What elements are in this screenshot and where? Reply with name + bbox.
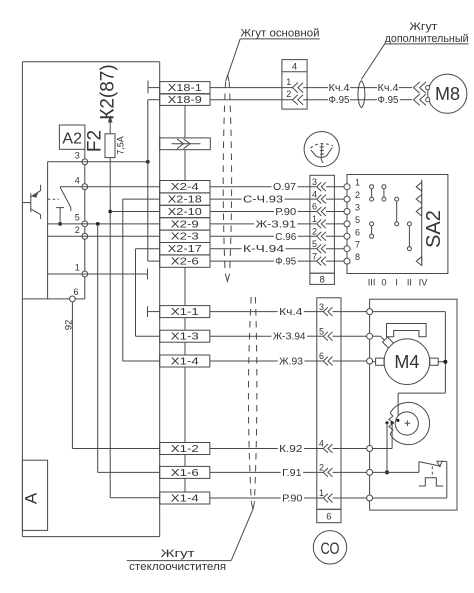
pin 6 [70,287,79,302]
svg-text:8: 8 [320,274,325,285]
svg-text:Кч.4: Кч.4 [279,307,303,318]
connector X1/M4 6-pin box [317,298,367,510]
label Ф.95 (b) [378,95,399,106]
wire park switch feed [373,471,419,473]
wire Ж-З.94 row X1 [210,335,323,337]
wire X2-17 to X1-3 [136,249,160,337]
svg-text:F2: F2 [85,130,106,152]
svg-text:Г.91: Г.91 [282,468,302,479]
wire X2-18 to X1-4 [123,199,160,361]
svg-text:1: 1 [286,77,291,87]
M4 unit pins [367,309,373,501]
pump contact b [391,421,394,424]
harness main dashed lines [223,75,231,281]
block A2 box [59,125,85,149]
wire 92 from pin 6 [72,302,159,449]
svg-text:О.97: О.97 [273,182,296,193]
label О.97 [273,182,296,193]
switch contact blade [60,187,71,211]
svg-text:СО: СО [321,539,340,558]
svg-text:К2(87): К2(87) [98,64,119,119]
svg-text:7: 7 [355,240,360,250]
svg-text:1: 1 [355,178,360,188]
transistor VT1 [22,185,40,219]
wire M8 row2 b [350,99,377,101]
pin 2 [75,225,88,239]
wire X18-9 branch down to X2-6 [148,100,160,261]
third brush rotated [383,337,394,348]
M4 left brush [373,358,385,365]
label С-Ч.93 [243,195,284,206]
svg-text:6: 6 [73,287,78,297]
svg-text:5: 5 [355,215,360,225]
svg-text:А2: А2 [62,131,82,148]
connector 4-1-2 box [282,60,307,110]
label Р.90 [275,207,296,218]
wire К-Ч.94 row [210,248,316,250]
label Ф.95 (a) [329,95,350,106]
svg-text:III: III [368,278,376,288]
connector pin Х1-4 (upper group) [160,355,210,368]
node pin3/X18-9 junction [146,160,150,164]
svg-text:Х1-3: Х1-3 [171,332,199,343]
pin 5 [75,213,88,227]
svg-text:1: 1 [312,214,317,224]
svg-text:6: 6 [319,351,324,361]
label harness wiper [127,509,253,573]
wire pin 1 row [48,273,148,275]
wire M8 row2 c [400,94,426,105]
connector pin Х2-6 [160,255,210,268]
svg-text:6: 6 [326,512,331,523]
node M4 right brush [443,360,447,364]
washer pump M [389,402,430,444]
block A label box [22,460,47,530]
label harness additional [361,21,468,80]
svg-text:Х1-2: Х1-2 [171,444,199,455]
wire M4 supply [373,312,446,419]
node fuse to X2-10 [108,210,112,214]
unit M4 box [370,299,457,510]
wire X18-9 stub [184,105,186,137]
SA2 wiper triangles [416,182,422,265]
svg-text:С-Ч.93: С-Ч.93 [243,195,284,206]
node switch to pin5 wire [58,222,62,226]
svg-text:5: 5 [312,239,317,249]
label 92 [64,320,75,331]
label Ж.93 X1 [279,357,303,368]
node pump a [385,470,389,474]
wire fuse to X1-4 lower [110,497,160,499]
svg-text:Х2-10: Х2-10 [168,207,202,218]
svg-text:Х18-9: Х18-9 [168,95,202,106]
wire pin 4 to X2-4 [60,186,160,188]
SA2 contact columns [370,185,412,251]
wire Р.90 row [210,211,316,213]
label SA2 [423,210,445,248]
label Р.90 X1 [282,494,303,505]
label F2 [85,130,106,152]
label harness main [228,28,320,76]
wire Р.90 row X1 [210,497,323,499]
wire pin 2 row [48,235,160,237]
SA2 position labels [368,278,428,288]
svg-text:Х2-17: Х2-17 [168,244,202,255]
svg-text:2: 2 [319,463,324,473]
svg-text:Х1-4: Х1-4 [171,494,199,505]
wire Ж-З.91 row [210,223,316,225]
wire Ж.93 row X1 [210,360,323,362]
crank linkage symbol [387,324,427,337]
wire X18-9 to connector [210,99,292,101]
svg-text:7: 7 [312,251,317,261]
svg-text:1: 1 [319,488,324,498]
wire third brush [373,336,385,340]
svg-text:Х2-6: Х2-6 [171,257,199,268]
unit A outline (wiper relay unit) [22,62,159,537]
label С.96 [275,232,296,243]
wire fuse to X2-10 [110,211,160,213]
svg-text:4: 4 [75,175,80,185]
connector pin Х1-2 (lower group) [160,443,210,456]
connector pin Х1-6 (lower group) [160,466,210,479]
svg-text:6: 6 [312,202,317,212]
joint box with arrow [160,138,211,150]
svg-text:IV: IV [419,278,429,288]
pump contact c [396,419,399,422]
wire X1 link [184,318,186,331]
terminal bar X18-1 [148,81,160,94]
svg-text:3: 3 [319,302,324,312]
label Ж-З.94 X1 [273,332,306,343]
pin 4 [75,175,88,189]
wire X1 link [184,342,186,355]
wire pump a [386,423,388,473]
wire M8 row1 b [350,87,377,89]
wire pump b [373,423,393,449]
wire M8 row1 a [303,87,328,89]
svg-text:Х2-3: Х2-3 [171,232,199,243]
svg-text:стеклоочистителя: стеклоочистителя [129,561,226,573]
M8 pin b [426,98,430,102]
park switch cam [419,478,443,486]
connector pin X18-9 [160,94,210,106]
label Кч.4 (a) [329,83,350,94]
svg-text:Жгут: Жгут [409,21,437,33]
svg-text:Ж.93: Ж.93 [279,357,303,368]
symbol CO [313,531,346,564]
svg-text:I: I [395,278,398,288]
svg-text:1: 1 [75,263,80,273]
label Ж-З.91 [256,219,297,230]
wire Ф.95 row [210,260,316,262]
harness boundary ellipse [358,81,365,108]
svg-text:3: 3 [355,203,360,213]
wire internal left bus [47,162,49,299]
svg-text:Кч.4: Кч.4 [378,83,399,94]
SA2 wiper line [421,180,423,264]
svg-text:Ф.95: Ф.95 [329,95,350,106]
label Кч.4 X1 [279,307,303,318]
label 7,5A [116,136,126,155]
label Ф.95 [275,257,296,268]
svg-text:2: 2 [75,225,80,235]
motor M8 [428,74,467,113]
fuse F2 [105,134,115,158]
svg-text:5: 5 [75,213,80,223]
svg-text:Х2-4: Х2-4 [171,182,199,193]
wire X2 to X1-1 link [184,267,186,305]
svg-text:Жгут: Жгут [161,548,195,560]
connector pin Х2-17 [160,243,210,256]
svg-text:0: 0 [381,278,386,288]
svg-text:3: 3 [312,177,317,187]
wire park switch to row1 [373,497,447,499]
svg-text:Жгут основной: Жгут основной [241,28,320,40]
wire Кч.4 row X1 [210,311,323,313]
switch SA2 box [347,175,448,274]
pin 1 [75,263,88,277]
svg-text:Х1-4: Х1-4 [171,357,199,368]
svg-text:2: 2 [312,227,317,237]
wire pin5 branch to X1-6 [98,224,160,473]
terminal bar X1-1 [148,306,160,317]
SA2 pins [344,178,360,264]
connector pin Х1-4 (lower group) [160,492,210,505]
label Г.91 X1 [282,468,302,479]
connector label 6 [317,509,341,522]
svg-text:Кч.4: Кч.4 [329,83,350,94]
svg-text:К-Ч.94: К-Ч.94 [243,244,285,255]
svg-text:92: 92 [64,320,75,331]
M4 right brush [430,358,446,365]
label K2(87) [98,64,119,119]
svg-text:3: 3 [75,151,80,161]
connector pin Х1-3 (upper group) [160,330,210,343]
svg-text:Ж-З.94: Ж-З.94 [273,332,306,343]
label A [22,492,41,504]
svg-text:Х2-9: Х2-9 [171,219,199,230]
label К-Ч.94 [243,244,285,255]
wire pin 3 row [48,161,148,163]
label Кч.4 (b) [378,83,399,94]
motor M4 circle [384,339,430,385]
wire pin 5 row [48,223,160,225]
wire joint to X2 [184,150,186,181]
svg-text:Ф.95: Ф.95 [275,257,296,268]
label К.92 X1 [279,444,303,455]
svg-text:дополнительный: дополнительный [385,33,469,45]
svg-text:М8: М8 [435,84,460,104]
svg-text:Р.90: Р.90 [275,207,296,218]
arrow to relay contact K2(87) [108,115,113,134]
connector pin Х2-9 [160,218,210,231]
svg-text:Р.90: Р.90 [282,494,303,505]
svg-text:М4: М4 [394,352,419,372]
harness wiper dashed lines [248,297,256,509]
connector X2/SA2 8-pin box [310,175,344,273]
mechanical link dashed [48,198,59,200]
svg-text:6: 6 [355,227,360,237]
terminal bar pin1 wire [147,269,149,280]
svg-text:Х1-1: Х1-1 [171,307,199,318]
svg-text:А: А [22,492,41,504]
wire К.92 row X1 [210,448,323,450]
svg-text:7,5А: 7,5А [116,136,126,155]
svg-text:Ж-З.91: Ж-З.91 [256,219,297,230]
svg-text:4: 4 [319,439,324,449]
wire X18-1 to connector [210,87,292,89]
svg-text:2: 2 [286,89,291,99]
node pin5 branch [96,222,100,226]
wire X1 link [184,455,186,467]
connector pin Х2-3 [160,230,210,243]
wire fuse output down [109,158,111,498]
connector pin X18-1 [160,82,210,94]
svg-text:8: 8 [355,252,360,262]
wiper pictogram [304,132,339,167]
wire С-Ч.93 row [210,198,316,200]
svg-text:SА2: SА2 [423,210,445,248]
wire X1 link [184,478,186,492]
wire О.97 row [210,186,316,188]
svg-text:К.92: К.92 [279,444,303,455]
svg-text:Х1-6: Х1-6 [171,468,199,479]
connector pin Х1-1 (upper group) [160,306,210,319]
wire С.96 row [210,235,316,237]
pin 3 [75,151,88,165]
wire M8 row2 a [303,99,328,101]
svg-text:4: 4 [292,61,297,72]
switch fixed contact [56,208,64,224]
label A2 [62,131,82,148]
wire X1 link [184,367,186,443]
svg-text:4: 4 [312,189,317,199]
wire pin 6 row [22,298,69,300]
wire Г.91 row X1 [210,471,323,473]
park switch cam link [431,466,433,478]
pump contact a [385,421,388,424]
connector label 8 [310,273,335,285]
svg-text:II: II [407,278,412,288]
svg-text:Ф.95: Ф.95 [378,95,399,106]
connector pin Х2-18 [160,193,210,206]
svg-text:С.96: С.96 [275,232,296,243]
connector pin Х2-4 [160,181,210,194]
svg-text:Х2-18: Х2-18 [168,195,202,206]
park switch contact [419,461,447,498]
wire pin bus [72,149,84,299]
svg-text:2: 2 [355,190,360,200]
svg-text:5: 5 [319,326,324,336]
svg-text:Х18-1: Х18-1 [168,83,202,94]
connector pin Х2-10 [160,205,210,218]
wire M8 row1 c [399,82,426,93]
M8 pin a [426,86,430,90]
